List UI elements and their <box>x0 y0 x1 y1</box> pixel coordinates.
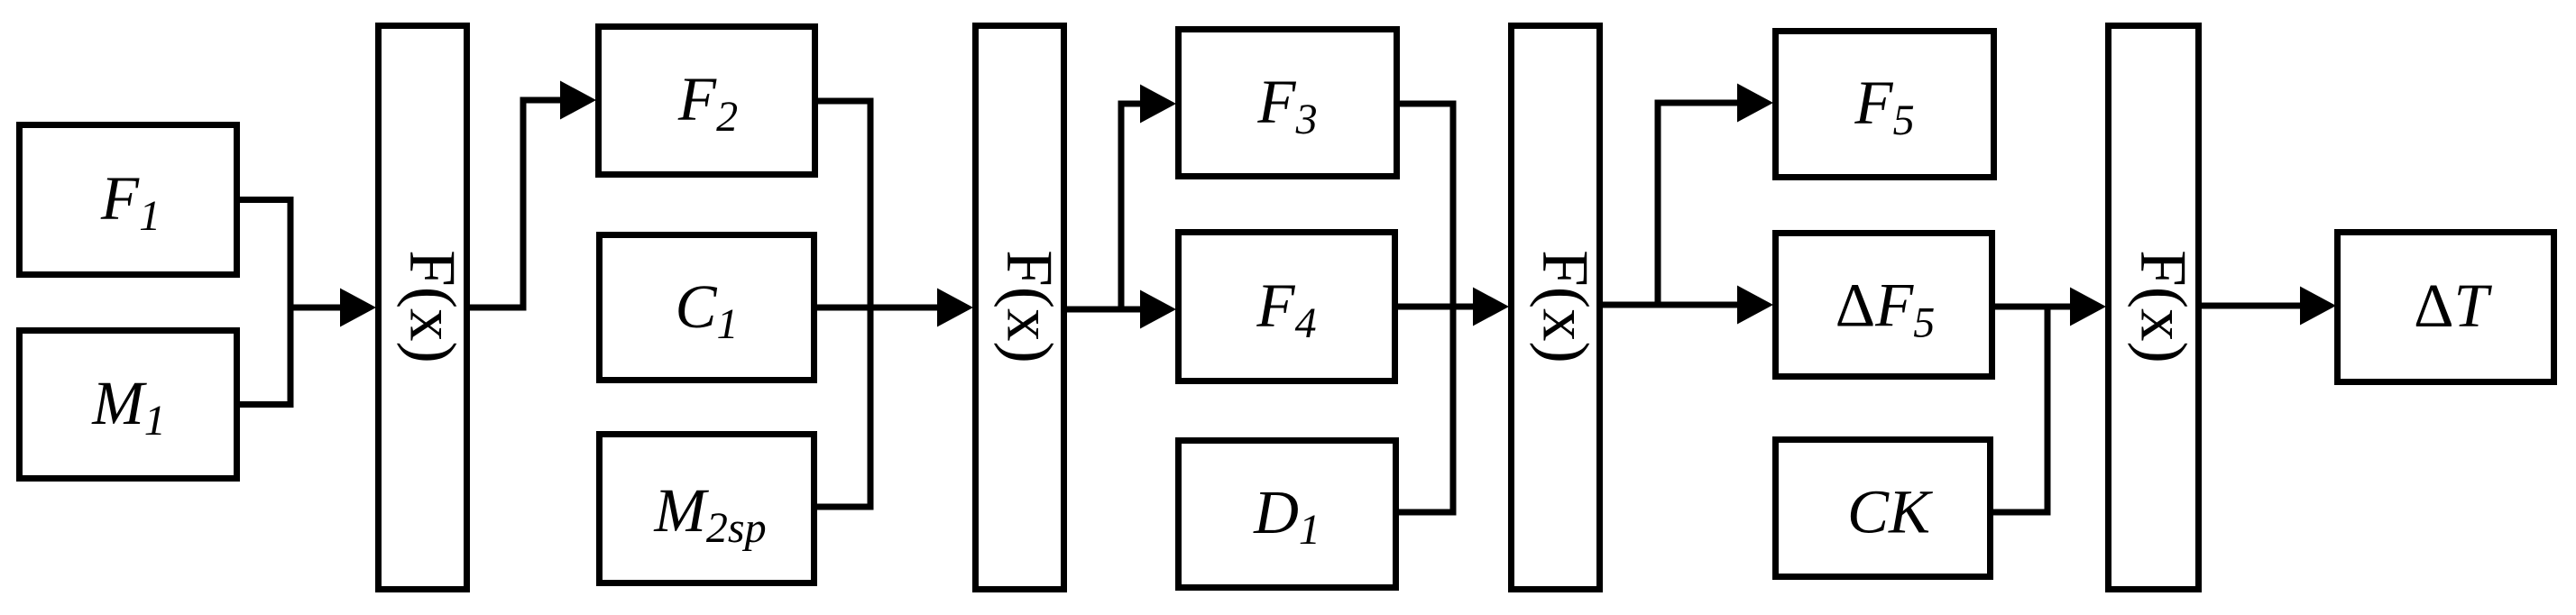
wire to F2 <box>520 97 564 104</box>
arrowhead into F4 <box>1140 290 1176 329</box>
wire F1 out <box>236 197 290 203</box>
wire split 1 vertical <box>520 100 527 311</box>
wire col2 out <box>1064 307 1122 313</box>
box F1 <box>20 125 237 275</box>
svg-text:ΔT: ΔT <box>2414 271 2492 340</box>
box dT <box>2338 233 2554 382</box>
box F4 <box>1179 233 1395 381</box>
box F(x) column 3 <box>1512 26 1600 590</box>
box F(x) column 1 <box>379 26 467 590</box>
wire F2 out <box>815 98 871 105</box>
arrowhead into col3 <box>1473 288 1509 326</box>
svg-text:F(x): F(x) <box>994 250 1067 363</box>
wire C1 out trunk 2 <box>814 305 941 311</box>
wire M1 out <box>236 401 290 408</box>
wire collector 4 vertical <box>2045 304 2051 516</box>
wire trunk 1 <box>288 305 344 311</box>
wire collector 2 vertical <box>868 98 874 510</box>
svg-text:F(x): F(x) <box>1530 250 1603 363</box>
wire to F4 <box>1121 307 1142 313</box>
arrowhead into col4 <box>2070 288 2106 326</box>
box M1 <box>20 331 237 479</box>
box M2sp <box>600 435 814 583</box>
svg-text:F(x): F(x) <box>397 250 470 363</box>
box F5 <box>1776 32 1994 178</box>
wire to dF5 <box>1658 302 1740 308</box>
arrowhead into col1 <box>340 289 376 327</box>
wire junction 1 vertical <box>288 197 294 408</box>
box C1 <box>600 235 814 381</box>
wire M2sp out <box>814 504 871 510</box>
arrowhead into F5 <box>1737 84 1773 123</box>
box dF5 <box>1776 234 1992 377</box>
box D1 <box>1179 441 1396 588</box>
wire CK out <box>1991 509 2048 516</box>
box F3 <box>1179 30 1397 177</box>
arrowhead into F3 <box>1140 85 1176 124</box>
arrowhead into dT <box>2300 287 2336 326</box>
wire col3 out <box>1599 302 1659 308</box>
wire collector 3 vertical <box>1450 101 1457 516</box>
svg-text:F(x): F(x) <box>2128 250 2201 363</box>
wire to F5 <box>1655 100 1741 106</box>
wire col1 out <box>467 305 524 311</box>
wire col4 out <box>2199 303 2304 309</box>
arrowhead into dF5 <box>1737 286 1773 325</box>
box F(x) column 4 <box>2109 26 2199 590</box>
arrowhead into F2 <box>560 81 596 120</box>
wire F3 out <box>1397 101 1454 107</box>
wire D1 out <box>1396 509 1454 516</box>
wire dF5 out trunk 4 <box>1992 304 2074 310</box>
wire to F3 <box>1118 101 1143 107</box>
svg-text:CK: CK <box>1847 478 1933 546</box>
wire split 2 vertical <box>1118 104 1125 313</box>
arrowhead into col2 <box>937 289 973 327</box>
box F(x) column 2 <box>976 26 1064 590</box>
box F2 <box>599 27 815 175</box>
box CK <box>1776 440 1991 577</box>
wire split 3 vertical <box>1655 103 1661 308</box>
wire F4 out trunk 3 <box>1395 304 1477 310</box>
